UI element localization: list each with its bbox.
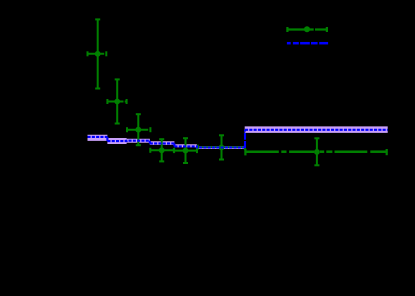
point P5 (174, 138, 197, 163)
model uncertainty band (lavender step fill) (88, 126, 388, 149)
model prediction (blue dashed step line) (88, 137, 245, 148)
blue dashed line over last bin (245, 129, 388, 131)
green data point markers (95, 51, 320, 155)
green error-bar data points (88, 19, 387, 165)
marker P1 (95, 51, 101, 57)
marker P2 (114, 99, 120, 105)
marker P4 (159, 147, 165, 153)
legend: green errorbar sample (287, 27, 327, 32)
marker P5 (183, 148, 189, 154)
marker P6 (219, 145, 225, 151)
marker P7 (314, 149, 320, 155)
point P1 (88, 19, 107, 88)
point P4 (150, 139, 174, 161)
point P7 (wide last bin) (245, 138, 386, 165)
legend: blue dashed line sample (287, 42, 328, 45)
legend: green marker (304, 26, 310, 32)
blue step riser at last bin edge (244, 130, 246, 148)
marker P3 (135, 127, 141, 133)
point P2 (107, 79, 126, 123)
point P6 (198, 135, 245, 159)
point P3 (127, 114, 150, 145)
